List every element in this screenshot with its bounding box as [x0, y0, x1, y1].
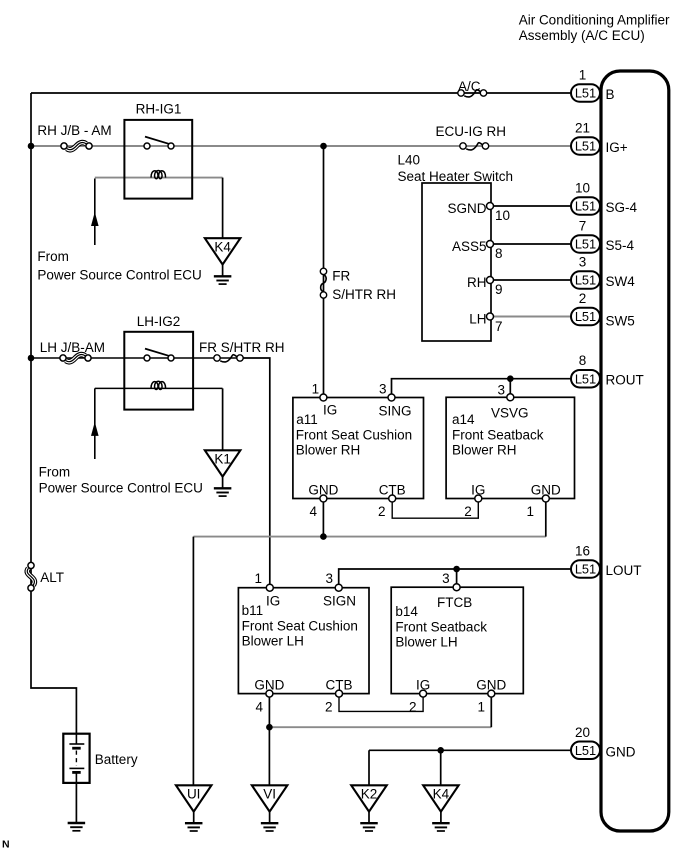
- svg-text:1: 1: [579, 68, 587, 83]
- connector pin 7 S5-4 (L51): [571, 219, 635, 254]
- fuse A/C: [458, 90, 487, 97]
- wire B+ top rail from battery node to pin 1 (B): [31, 92, 571, 94]
- svg-text:FR: FR: [332, 268, 350, 283]
- svg-text:SW5: SW5: [606, 314, 635, 329]
- svg-text:Blower RH: Blower RH: [296, 443, 361, 458]
- wire LH row to pin 2: [490, 316, 571, 318]
- battery: [63, 734, 138, 783]
- wire ground bus to UI ground drop: [192, 537, 194, 786]
- wire a11 GND pin 4 drop to ground bus: [322, 499, 324, 537]
- arrow from Power Source Control ECU (LH): [91, 388, 99, 459]
- svg-text:3: 3: [325, 571, 333, 586]
- node ROUT / VSVG junction: [507, 375, 514, 382]
- blower b11 Front Seat Cushion Blower LH: [238, 571, 369, 714]
- wire RH-IG1 coil lead down to K4: [222, 178, 224, 239]
- ground symbol K1 (LH-IG2 coil): [205, 450, 241, 496]
- wire LH-IG2 coil left lead: [95, 387, 223, 389]
- wire ROUT net: pin 8 to SING and VSVG: [392, 379, 572, 398]
- svg-text:L40: L40: [398, 153, 421, 168]
- svg-text:RH J/B - AM: RH J/B - AM: [37, 123, 111, 138]
- svg-text:Power Source Control ECU: Power Source Control ECU: [39, 481, 203, 496]
- svg-text:L51: L51: [575, 273, 596, 288]
- wire FR S/HTR RH branch down to a11 IG: [323, 146, 325, 398]
- svg-text:8: 8: [579, 353, 587, 368]
- fuse ECU-IG RH: [460, 143, 489, 150]
- svg-text:Air Conditioning Amplifier: Air Conditioning Amplifier: [519, 12, 670, 27]
- node IG row / FR S-HTR branch junction: [320, 143, 327, 150]
- svg-text:1: 1: [312, 382, 320, 397]
- svg-text:9: 9: [495, 282, 503, 297]
- svg-text:10: 10: [575, 181, 590, 196]
- wire b11 GND pin 4 drop: [268, 694, 270, 728]
- fuse FR S/HTR RH (LH feed): [214, 355, 243, 362]
- svg-text:b11: b11: [242, 603, 264, 618]
- relay RH-IG1: [124, 102, 192, 199]
- wire ROUT branch down to a14 VSVG pin 3: [509, 379, 511, 398]
- wire K2 ground drop: [368, 750, 370, 785]
- svg-text:GND: GND: [606, 744, 636, 759]
- node LH ground bus junction: [266, 724, 273, 731]
- svg-text:K4: K4: [214, 239, 231, 254]
- svg-text:2: 2: [464, 504, 472, 519]
- node RH ground bus junction: [320, 533, 327, 540]
- fusible link RH J/B - AM: [61, 143, 92, 150]
- wire a14 GND pin 1 drop to ground bus: [545, 499, 547, 537]
- svg-text:RH: RH: [467, 275, 487, 290]
- connector UI ground: [176, 785, 212, 831]
- svg-text:L51: L51: [575, 139, 596, 154]
- wire IG row: RH J/B to relay RH-IG1 to ECU-IG RH fuse to pin 21 (IG+): [31, 145, 571, 147]
- svg-text:LOUT: LOUT: [606, 563, 642, 578]
- wire RH ground bus: [193, 536, 545, 538]
- svg-text:SG-4: SG-4: [606, 200, 638, 215]
- blower a11 Front Seat Cushion Blower RH: [293, 382, 424, 520]
- fusible link ALT: [27, 562, 34, 591]
- connector pin 1 B (L51): [571, 68, 615, 103]
- svg-text:4: 4: [309, 504, 317, 519]
- svg-text:7: 7: [579, 219, 587, 234]
- connector pin 20 GND (L51): [571, 725, 636, 760]
- svg-text:b14: b14: [395, 604, 418, 619]
- svg-text:SW4: SW4: [606, 274, 636, 289]
- svg-text:FTCB: FTCB: [437, 595, 472, 610]
- wire VI ground drop: [268, 727, 270, 785]
- connector K2 ground: [351, 785, 387, 831]
- svg-text:Blower RH: Blower RH: [452, 443, 517, 458]
- svg-text:Assembly (A/C ECU): Assembly (A/C ECU): [519, 28, 645, 43]
- wire GND net: pin 20 to K2 and K4 grounds: [369, 749, 571, 751]
- svg-text:8: 8: [495, 246, 503, 261]
- svg-text:3: 3: [497, 383, 505, 398]
- svg-text:1: 1: [477, 699, 485, 714]
- svg-text:ASS5: ASS5: [452, 239, 487, 254]
- node LOUT / FTCB junction: [453, 566, 460, 573]
- fusible link LH J/B-AM: [60, 355, 91, 362]
- arrow from Power Source Control ECU (RH): [91, 179, 99, 246]
- svg-text:2: 2: [325, 699, 333, 714]
- ground symbol K4 (RH-IG1 coil): [205, 238, 241, 284]
- svg-text:N: N: [2, 839, 10, 851]
- ECU connector body (A/C amplifier): [601, 71, 669, 831]
- svg-text:L51: L51: [575, 309, 596, 324]
- wire left vertical battery feed rail: [31, 93, 76, 734]
- svg-text:L51: L51: [575, 237, 596, 252]
- wire K4 ground drop: [440, 750, 442, 785]
- switch L40 Seat Heater Switch: [398, 153, 514, 342]
- svg-text:Power Source Control ECU: Power Source Control ECU: [37, 268, 201, 283]
- node battery rail / IG row junction: [28, 143, 35, 150]
- svg-text:SGND: SGND: [447, 201, 486, 216]
- wire LH CTB-IG jumper: [339, 694, 423, 712]
- svg-text:L51: L51: [575, 743, 596, 758]
- svg-text:4: 4: [255, 699, 263, 714]
- connector VI ground: [252, 785, 288, 831]
- svg-text:Blower LH: Blower LH: [395, 635, 457, 650]
- node GND row / K4 junction: [437, 747, 444, 754]
- connector pin 16 LOUT (L51): [571, 544, 642, 579]
- svg-text:FR S/HTR RH: FR S/HTR RH: [199, 340, 285, 355]
- fuse FR S/HTR RH (RH feed, vertical): [320, 268, 326, 298]
- wire LOUT branch down to b14 FTCB pin 3: [456, 569, 458, 587]
- svg-text:20: 20: [575, 725, 590, 740]
- svg-text:K4: K4: [433, 787, 450, 802]
- svg-text:LH-IG2: LH-IG2: [137, 314, 181, 329]
- svg-text:2: 2: [579, 291, 587, 306]
- connector pin 2 SW5 (L51): [571, 291, 635, 329]
- svg-text:a11: a11: [296, 412, 318, 427]
- svg-text:a14: a14: [452, 412, 475, 427]
- wire battery to ground: [75, 783, 77, 823]
- svg-text:1: 1: [254, 571, 262, 586]
- svg-text:Front Seatback: Front Seatback: [452, 428, 544, 443]
- wire from FR S/HTR RH fuse down to b11 IG: [242, 358, 270, 588]
- svg-text:B: B: [606, 87, 615, 102]
- svg-text:3: 3: [442, 571, 450, 586]
- svg-text:S/HTR RH: S/HTR RH: [332, 287, 396, 302]
- connector pin 8 ROUT (L51): [571, 353, 644, 388]
- svg-text:Blower LH: Blower LH: [242, 634, 304, 649]
- svg-text:3: 3: [379, 382, 387, 397]
- wire LOUT net: pin 16 to SIGN and FTCB: [339, 569, 571, 588]
- blower b14 Front Seatback Blower LH: [391, 571, 523, 714]
- svg-text:IG+: IG+: [606, 140, 628, 155]
- wire LH-IG2 row: LH J/B to relay to FR S/HTR RH fuse: [31, 357, 244, 359]
- svg-text:L51: L51: [575, 371, 596, 386]
- svg-text:LH J/B-AM: LH J/B-AM: [40, 340, 105, 355]
- svg-text:1: 1: [526, 504, 534, 519]
- blower a14 Front Seatback Blower RH: [446, 383, 574, 520]
- connector K4 ground (bottom): [423, 785, 459, 831]
- ground below battery: [68, 823, 86, 831]
- wire RH CTB-IG jumper: [392, 499, 478, 519]
- svg-text:ALT: ALT: [40, 570, 64, 585]
- wire SGND row to pin 10: [490, 205, 571, 207]
- svg-text:SIGN: SIGN: [323, 594, 356, 609]
- svg-text:VI: VI: [263, 787, 276, 802]
- svg-text:ROUT: ROUT: [606, 373, 644, 388]
- svg-text:From: From: [39, 465, 71, 480]
- svg-text:3: 3: [579, 255, 587, 270]
- svg-text:L51: L51: [575, 199, 596, 214]
- connector pin 3 SW4 (L51): [571, 255, 635, 290]
- svg-text:21: 21: [575, 121, 590, 136]
- svg-text:SING: SING: [379, 404, 412, 419]
- connector pin 10 SG-4 (L51): [571, 181, 638, 216]
- svg-text:UI: UI: [187, 787, 201, 802]
- svg-text:A/C: A/C: [458, 79, 481, 94]
- wire LH ground bus: [269, 726, 491, 728]
- wire ASS5 row to pin 7: [490, 243, 571, 245]
- svg-text:L51: L51: [575, 562, 596, 577]
- svg-text:Front Seatback: Front Seatback: [395, 620, 487, 635]
- svg-text:7: 7: [495, 319, 503, 334]
- svg-text:K1: K1: [214, 452, 231, 467]
- svg-text:LH: LH: [469, 312, 486, 327]
- connector pin 21 IG+ (L51): [571, 121, 628, 156]
- svg-text:Battery: Battery: [95, 752, 138, 767]
- svg-text:RH-IG1: RH-IG1: [136, 102, 182, 117]
- svg-text:Seat Heater Switch: Seat Heater Switch: [398, 169, 514, 184]
- node battery rail / LH-IG2 row junction: [28, 355, 35, 362]
- svg-text:10: 10: [495, 208, 510, 223]
- wire LH-IG2 coil lead down to K1: [222, 388, 224, 450]
- wire RH-IG1 coil left lead: [95, 177, 223, 179]
- svg-text:2: 2: [409, 699, 417, 714]
- svg-text:From: From: [37, 249, 69, 264]
- svg-text:S5-4: S5-4: [606, 238, 635, 253]
- svg-text:IG: IG: [266, 594, 280, 609]
- svg-text:K2: K2: [361, 787, 378, 802]
- svg-text:Front Seat Cushion: Front Seat Cushion: [296, 428, 412, 443]
- wire RH row to pin 3: [490, 279, 571, 281]
- svg-text:VSVG: VSVG: [491, 406, 529, 421]
- svg-text:Front Seat Cushion: Front Seat Cushion: [242, 619, 358, 634]
- wire b14 GND pin 1 drop to bus: [490, 694, 492, 728]
- svg-text:16: 16: [575, 544, 590, 559]
- svg-text:2: 2: [378, 504, 386, 519]
- svg-text:ECU-IG RH: ECU-IG RH: [436, 124, 507, 139]
- svg-text:IG: IG: [323, 403, 337, 418]
- relay LH-IG2: [124, 314, 193, 410]
- svg-text:L51: L51: [575, 86, 596, 101]
